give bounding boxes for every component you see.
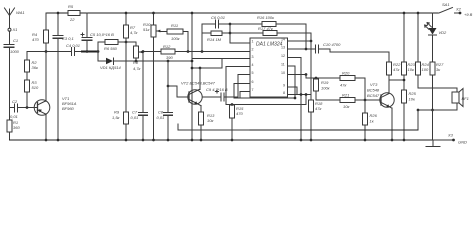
svg-text:8: 8	[283, 91, 285, 95]
wire VT2 emitter down	[197, 104, 201, 106]
node x192 ground junction	[191, 139, 194, 142]
resistor R19	[314, 78, 319, 100]
node pin14 fb junction	[310, 40, 313, 43]
node x230 R14 junction	[229, 32, 232, 35]
node pin10 x306 junction	[305, 73, 308, 76]
resistor R13	[199, 112, 204, 140]
svg-text:ВС547: ВС547	[367, 93, 380, 98]
node VT1 emitter ground	[45, 139, 48, 142]
potentiometer R10	[151, 13, 160, 140]
capacitor C2	[15, 104, 18, 112]
node R18 ground junction	[310, 139, 313, 142]
svg-text:4,7к: 4,7к	[133, 66, 142, 71]
svg-text:0,01: 0,01	[10, 114, 18, 119]
node X2 terminal	[459, 12, 462, 15]
antenna WA1	[5, 8, 15, 28]
node x365 row2 junction	[364, 99, 367, 102]
node C8 base tap	[167, 85, 170, 88]
node y68 x192 junction	[191, 67, 194, 70]
svg-text:0,01: 0,01	[131, 115, 139, 120]
node junction R3 base	[26, 106, 29, 109]
svg-text:BF960: BF960	[62, 106, 75, 111]
resistor R25	[402, 90, 407, 140]
svg-text:7: 7	[252, 88, 254, 92]
svg-text:X1: X1	[12, 27, 18, 32]
svg-text:R6 560: R6 560	[104, 46, 118, 51]
svg-text:51к: 51к	[143, 27, 150, 32]
wire antenna to C1	[9, 31, 11, 44]
svg-text:C9 4,7*16 В: C9 4,7*16 В	[206, 87, 228, 92]
svg-text:4: 4	[252, 63, 254, 67]
node R15 ground junction	[231, 139, 234, 142]
resistor R5	[68, 11, 80, 16]
node X3 terminal	[452, 139, 455, 142]
node x301 ground junction	[300, 139, 303, 142]
transistor VT1	[34, 100, 50, 116]
wire pin13 C10	[288, 48, 316, 50]
LED VD2	[425, 13, 437, 62]
svg-text:100к: 100к	[321, 86, 331, 91]
svg-text:C4 0,01: C4 0,01	[66, 43, 80, 48]
wire bus corner down to R2	[26, 52, 28, 61]
wire y68 to pin3	[192, 59, 250, 69]
wire volume line to pin2	[143, 51, 251, 53]
node VD1 C8 junction	[167, 60, 170, 63]
resistor R27	[430, 62, 435, 110]
svg-text:R19: R19	[321, 80, 329, 85]
resistor R15	[230, 105, 235, 141]
node R19 row1 junction	[315, 77, 318, 80]
wire C1 down to base line	[9, 48, 11, 108]
wire pin14	[288, 40, 312, 42]
wire speaker bottom	[418, 103, 457, 110]
speaker BF1	[452, 89, 463, 107]
svg-text:12: 12	[281, 54, 285, 58]
svg-text:470: 470	[32, 37, 39, 42]
svg-text:3: 3	[252, 55, 254, 59]
resistor R6	[105, 40, 136, 45]
wire row2 y100	[316, 99, 340, 101]
wire pin11 riser	[288, 66, 296, 98]
svg-text:X3: X3	[447, 133, 454, 138]
node volume x202 junction	[201, 50, 204, 53]
svg-text:10: 10	[281, 71, 285, 75]
capacitor C7	[139, 52, 148, 141]
wire VT3 collector stub y80	[389, 79, 404, 81]
svg-text:C5 10,0*16 В: C5 10,0*16 В	[90, 32, 114, 37]
resistor R11	[167, 29, 188, 52]
switch SA1	[439, 8, 459, 14]
svg-text:47к: 47к	[393, 67, 400, 72]
svg-text:R12: R12	[163, 44, 171, 49]
svg-text:VT3: VT3	[370, 82, 378, 87]
node R15 top junction	[231, 103, 234, 106]
svg-text:390: 390	[166, 55, 173, 60]
wire pin8	[288, 94, 312, 96]
node R4 bus junction	[45, 50, 48, 53]
svg-text:10к: 10к	[409, 97, 416, 102]
capacitor C6	[202, 20, 230, 28]
svg-text:R21: R21	[342, 93, 349, 98]
svg-text:R20: R20	[342, 71, 350, 76]
svg-text:X2: X2	[455, 7, 462, 12]
svg-text:WA1: WA1	[16, 10, 25, 15]
svg-text:DA1 LM324: DA1 LM324	[256, 42, 283, 48]
node X1 terminal	[8, 28, 11, 31]
wire row1 y78	[306, 75, 340, 79]
transistor VT2	[188, 90, 202, 105]
svg-text:47к: 47к	[315, 106, 322, 111]
svg-text:R14 1М: R14 1М	[207, 37, 222, 42]
node bus-R6 junction	[97, 50, 100, 53]
node speaker y110 x418 junction	[417, 109, 420, 112]
wire VT3 emitter to ground	[389, 107, 392, 109]
svg-text:R16 100к: R16 100к	[257, 15, 275, 20]
wire x192 full column	[191, 13, 193, 140]
svg-text:13: 13	[281, 46, 285, 50]
svg-text:360: 360	[13, 125, 20, 130]
wire x230 riser to pin1	[230, 24, 250, 43]
svg-text:BF1: BF1	[462, 96, 469, 101]
svg-text:R25: R25	[409, 91, 417, 96]
wire pin4 stub	[226, 67, 250, 105]
wire node98 down to detector	[98, 52, 106, 62]
node pin8 x301 junction	[300, 93, 303, 96]
svg-text:GND: GND	[458, 140, 467, 145]
svg-text:1: 1	[252, 40, 254, 44]
svg-text:5: 5	[252, 71, 254, 75]
wire pin12 riser	[288, 58, 302, 141]
node x192 rail junction	[191, 12, 194, 15]
node R9 ground junction	[125, 139, 128, 142]
wire VT2 collector riser	[197, 89, 200, 90]
node C8 ground junction	[167, 139, 170, 142]
wire bus emphasis segment	[82, 51, 98, 53]
node R6 R7 junction	[125, 41, 128, 44]
node volume x188 junction	[187, 50, 190, 53]
node VT2 collector y68	[199, 67, 202, 70]
svg-text:ВС548: ВС548	[367, 88, 380, 93]
wire pin9	[288, 87, 298, 95]
wire speaker top y88	[418, 88, 457, 92]
svg-text:C1: C1	[13, 38, 18, 43]
wire y130 left riser	[177, 124, 179, 130]
node VD1 R8 junction	[135, 60, 138, 63]
svg-text:510: 510	[32, 85, 39, 90]
resistor R17	[230, 31, 311, 42]
capacitor C10	[316, 45, 331, 53]
capacitor C4	[72, 48, 75, 56]
svg-text:C3 0,1: C3 0,1	[62, 36, 74, 41]
resistor R18	[309, 41, 314, 140]
wire below IC y98	[234, 97, 295, 99]
svg-text:14: 14	[281, 38, 285, 42]
svg-text:4,7к: 4,7к	[130, 30, 139, 35]
svg-text:9: 9	[283, 84, 285, 88]
wire VT1 collector riser	[45, 52, 47, 102]
resistor R16	[230, 22, 306, 50]
node C3 top rail junction	[57, 12, 60, 15]
wire return line y130	[178, 129, 250, 131]
wire C9 riser to pin5	[238, 75, 250, 98]
node C7 top junction	[142, 50, 145, 53]
wire C8 tap to VT2 base	[168, 86, 188, 97]
wire bus y51 left	[27, 51, 71, 53]
wire top +9V rail	[46, 12, 438, 14]
resistor R7	[124, 13, 129, 42]
resistor R2	[25, 60, 30, 80]
svg-text:R9: R9	[114, 110, 120, 115]
svg-text:47к: 47к	[340, 83, 347, 88]
svg-text:SA1: SA1	[442, 2, 450, 7]
wire VT1 emitter to ground	[45, 113, 48, 116]
node R10 top rail junction	[152, 12, 155, 15]
wire node98 up to R6	[98, 42, 105, 52]
wire bus y51 right	[75, 51, 98, 53]
diode VD1	[106, 58, 113, 64]
node pin13 R16 junction	[305, 48, 308, 51]
svg-text:36к: 36к	[32, 65, 39, 70]
svg-text:C2: C2	[12, 99, 18, 104]
svg-text:VT2 ВС548,ВС547: VT2 ВС548,ВС547	[181, 81, 216, 86]
wire ground to X3	[433, 139, 452, 141]
resistor R4	[44, 13, 49, 52]
node collector x404 junction	[403, 79, 406, 82]
wire long audio line y52	[330, 52, 389, 62]
svg-text:11: 11	[281, 63, 285, 67]
svg-text:100: 100	[422, 67, 429, 72]
svg-text:470: 470	[236, 111, 243, 116]
node pin11 y98 junction	[294, 97, 297, 100]
resistor R1	[7, 108, 12, 141]
node C7 ground junction	[142, 139, 145, 142]
svg-text:R5: R5	[68, 4, 74, 9]
capacitor C1	[4, 45, 14, 48]
node VT3 emitter ground	[391, 139, 394, 142]
wire x202 riser	[201, 24, 203, 52]
resistor R23	[402, 13, 407, 90]
capacitor C3	[53, 13, 63, 140]
resistor R9	[124, 112, 129, 140]
svg-text:22: 22	[69, 17, 75, 22]
wire C9 line	[203, 96, 221, 98]
resistor R22	[387, 62, 392, 93]
wire base line y108	[10, 107, 15, 109]
wire pin6 stub	[234, 84, 250, 99]
svg-text:R26: R26	[370, 113, 378, 118]
capacitor C5 electrolytic	[81, 13, 92, 52]
svg-text:C10 4700: C10 4700	[323, 42, 341, 47]
ground chassis symbol	[426, 140, 440, 147]
svg-text:10к: 10к	[207, 118, 214, 123]
node x192 detector junction	[191, 60, 194, 63]
wire R7 column down	[125, 42, 127, 112]
svg-text:R8: R8	[133, 60, 139, 65]
node R23 rail junction	[403, 12, 406, 15]
transistor VT3	[380, 93, 394, 108]
resistor R3	[25, 80, 30, 108]
node R13 ground junction	[200, 139, 203, 142]
svg-text:0,01: 0,01	[157, 115, 165, 120]
wire pin7 stub	[240, 92, 250, 99]
svg-text:C6 0,01: C6 0,01	[211, 15, 225, 20]
capacitor C9 electrolytic	[216, 90, 239, 101]
node R25 ground junction	[403, 139, 406, 142]
svg-text:VD1 КД514: VD1 КД514	[100, 65, 122, 70]
resistor R24	[416, 13, 421, 88]
node x230 C6 junction	[229, 23, 232, 26]
svg-text:C8: C8	[158, 110, 164, 115]
svg-text:10к: 10к	[408, 67, 415, 72]
svg-text:+9 В: +9 В	[464, 12, 473, 17]
node R10 ground junction	[152, 139, 155, 142]
resistor R14	[202, 31, 230, 36]
potentiometer R8	[134, 42, 143, 61]
capacitor C8	[164, 61, 173, 140]
svg-text:C7: C7	[132, 110, 138, 115]
resistor R21	[340, 98, 381, 103]
node R26 ground junction	[364, 139, 367, 142]
wire pin10	[288, 74, 307, 76]
svg-text:R11: R11	[171, 23, 178, 28]
ground rail	[10, 139, 434, 141]
wire R27 column to ground	[432, 110, 434, 140]
resistor R26	[363, 100, 368, 140]
svg-text:10к: 10к	[343, 104, 350, 109]
wire below IC y104	[226, 95, 306, 105]
node C3 ground junction	[57, 139, 60, 142]
wire C2 to VT1 base	[18, 107, 38, 109]
op-amp IC DA1 LM324	[250, 38, 288, 97]
wire R10 wiper to R11	[160, 31, 167, 33]
svg-text:100к: 100к	[171, 36, 181, 41]
node R7 top rail junction	[125, 12, 128, 15]
resistor R12	[161, 49, 175, 54]
svg-text:R17 47к: R17 47к	[258, 26, 274, 31]
node C5 bus junction	[86, 50, 89, 53]
resistor R20	[340, 76, 365, 101]
svg-text:1,5к: 1,5к	[112, 115, 121, 120]
svg-text:1000: 1000	[10, 49, 20, 54]
svg-text:6: 6	[252, 80, 254, 84]
svg-text:2: 2	[252, 48, 254, 52]
node R27 speaker wire junction	[431, 109, 434, 112]
node pin8 x306 junction	[305, 93, 308, 96]
node R24 rail junction	[417, 12, 420, 15]
svg-text:VD2: VD2	[439, 30, 448, 35]
wire y110 riser to return	[417, 110, 419, 130]
